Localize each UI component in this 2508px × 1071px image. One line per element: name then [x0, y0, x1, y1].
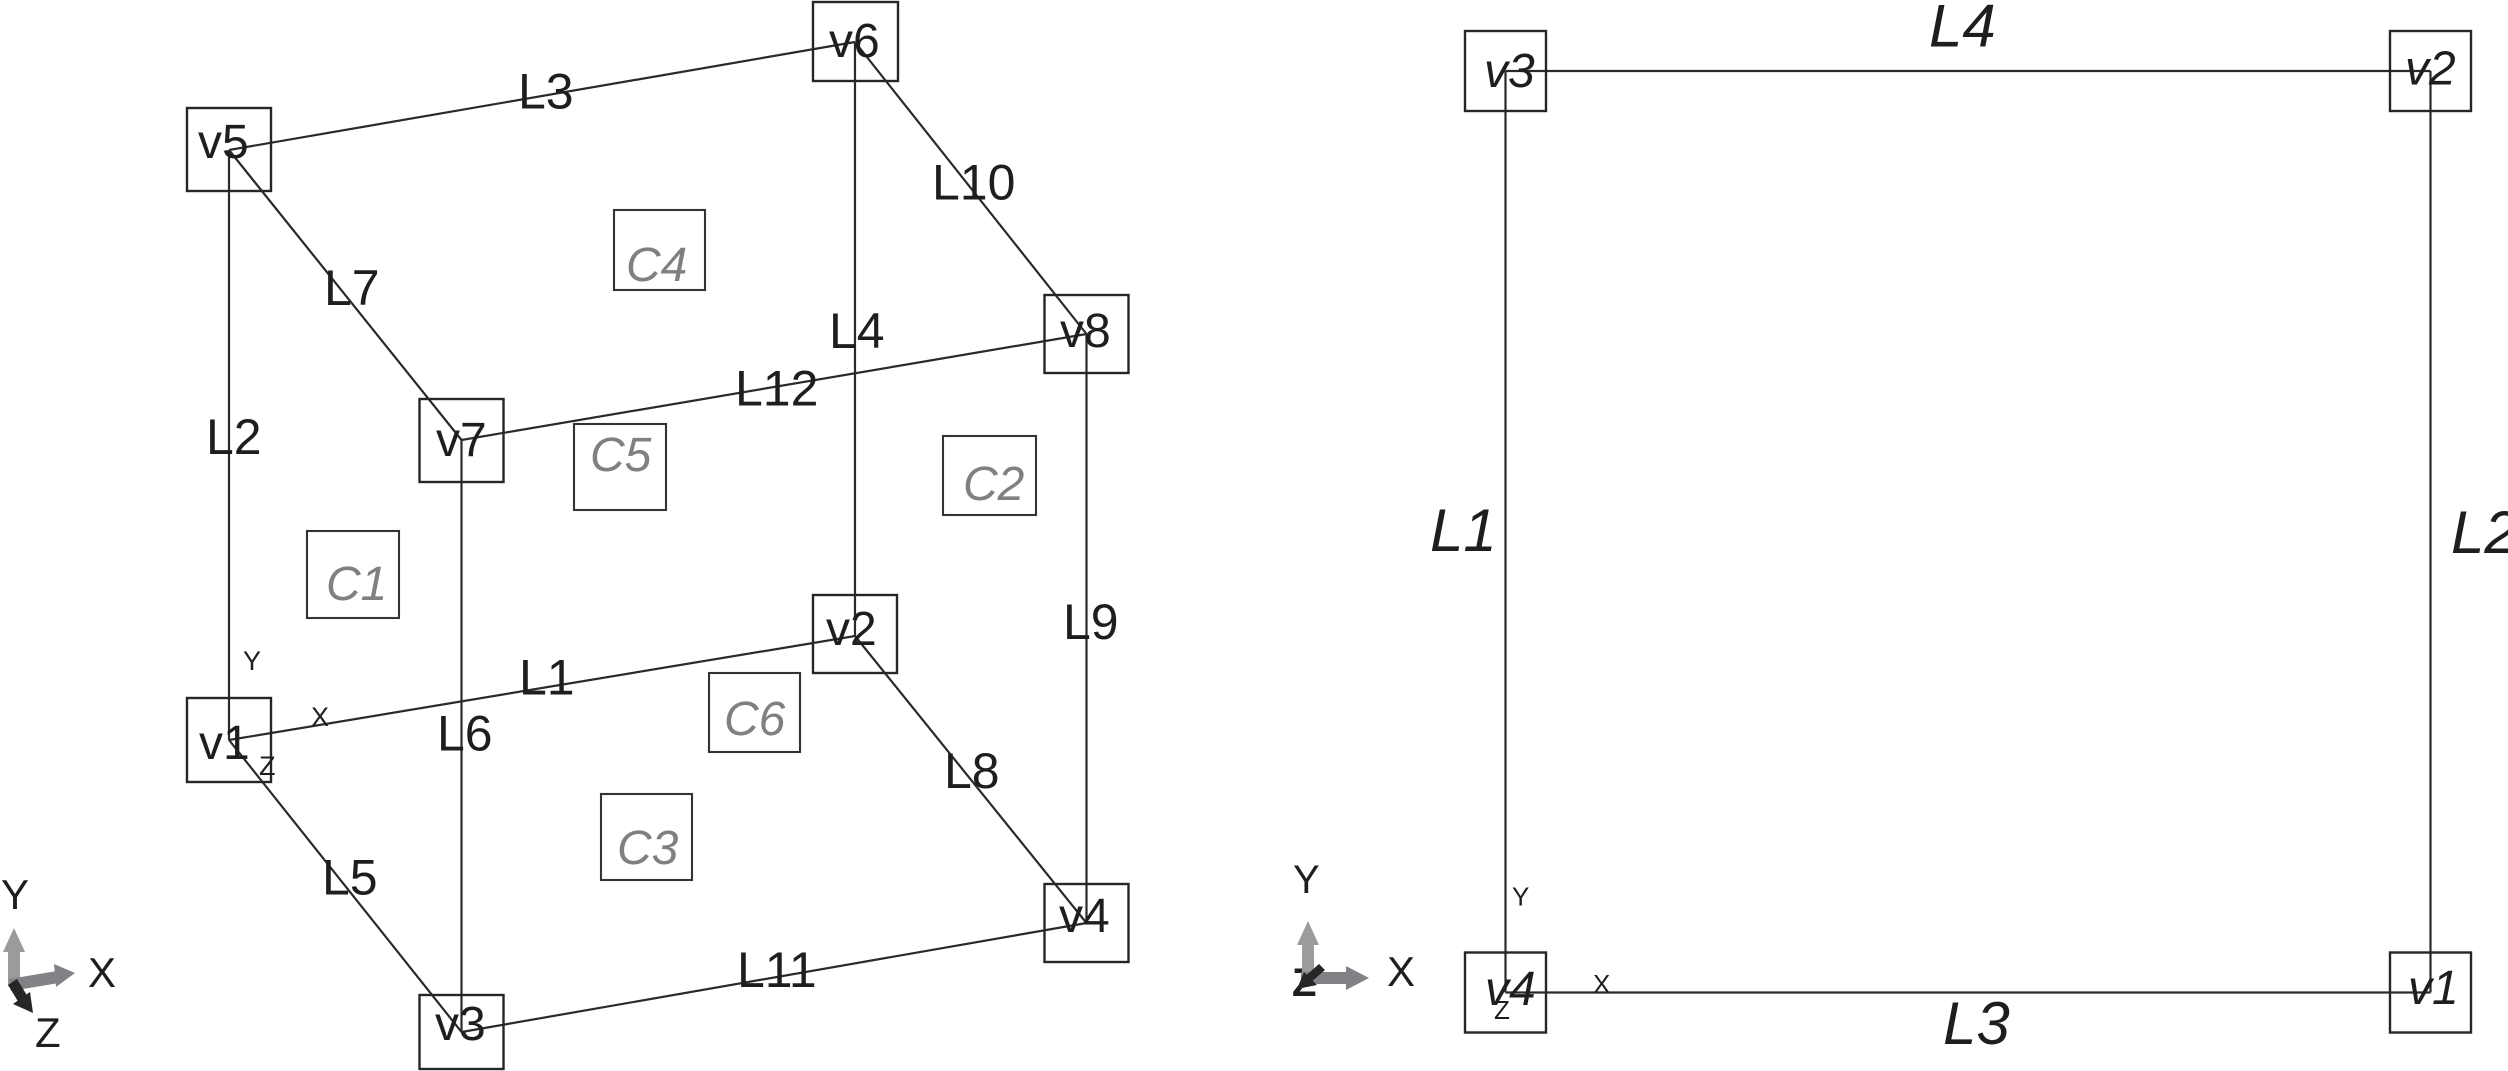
svg-text:L1: L1: [519, 650, 575, 706]
svg-text:L5: L5: [322, 850, 378, 906]
svg-text:L7: L7: [324, 260, 380, 316]
svg-text:v1: v1: [199, 717, 250, 770]
svg-text:L6: L6: [437, 706, 493, 762]
svg-text:v2: v2: [826, 603, 877, 656]
svg-text:v5: v5: [198, 116, 249, 169]
svg-text:C2: C2: [963, 458, 1024, 511]
svg-text:L4: L4: [1929, 0, 1996, 59]
svg-text:L11: L11: [737, 942, 817, 998]
svg-text:L1: L1: [1430, 497, 1497, 564]
svg-text:v7: v7: [436, 414, 487, 467]
svg-text:Z: Z: [35, 1009, 61, 1056]
svg-text:L10: L10: [932, 155, 1015, 211]
svg-text:v3: v3: [435, 998, 486, 1051]
svg-text:C5: C5: [590, 429, 652, 482]
svg-text:X: X: [88, 949, 116, 996]
svg-text:v8: v8: [1060, 305, 1111, 358]
svg-text:C3: C3: [617, 822, 679, 875]
svg-text:L4: L4: [829, 303, 885, 359]
svg-text:v2: v2: [2405, 43, 2456, 96]
svg-text:v4: v4: [1059, 890, 1110, 943]
svg-text:L2: L2: [2451, 499, 2508, 566]
svg-text:v3: v3: [1484, 45, 1535, 98]
svg-text:C4: C4: [626, 239, 687, 292]
svg-text:X: X: [1593, 969, 1610, 999]
svg-text:Y: Y: [1293, 858, 1320, 902]
svg-text:C6: C6: [724, 693, 786, 746]
svg-text:L3: L3: [1943, 990, 2010, 1057]
svg-text:L2: L2: [206, 409, 262, 465]
svg-text:C1: C1: [326, 558, 387, 611]
svg-text:X: X: [1387, 948, 1415, 995]
svg-text:X: X: [311, 702, 329, 732]
svg-text:Y: Y: [1512, 882, 1529, 912]
svg-text:Y: Y: [1, 871, 29, 918]
svg-text:Z: Z: [259, 751, 276, 781]
svg-text:v6: v6: [829, 15, 880, 68]
svg-text:L3: L3: [518, 63, 574, 119]
svg-text:L8: L8: [944, 743, 1000, 799]
svg-text:L12: L12: [735, 361, 818, 417]
svg-text:L9: L9: [1063, 594, 1119, 650]
svg-text:Y: Y: [243, 646, 261, 676]
svg-text:v4: v4: [1485, 963, 1536, 1016]
svg-text:v1: v1: [2408, 962, 2459, 1015]
svg-text:Z: Z: [1494, 995, 1510, 1025]
